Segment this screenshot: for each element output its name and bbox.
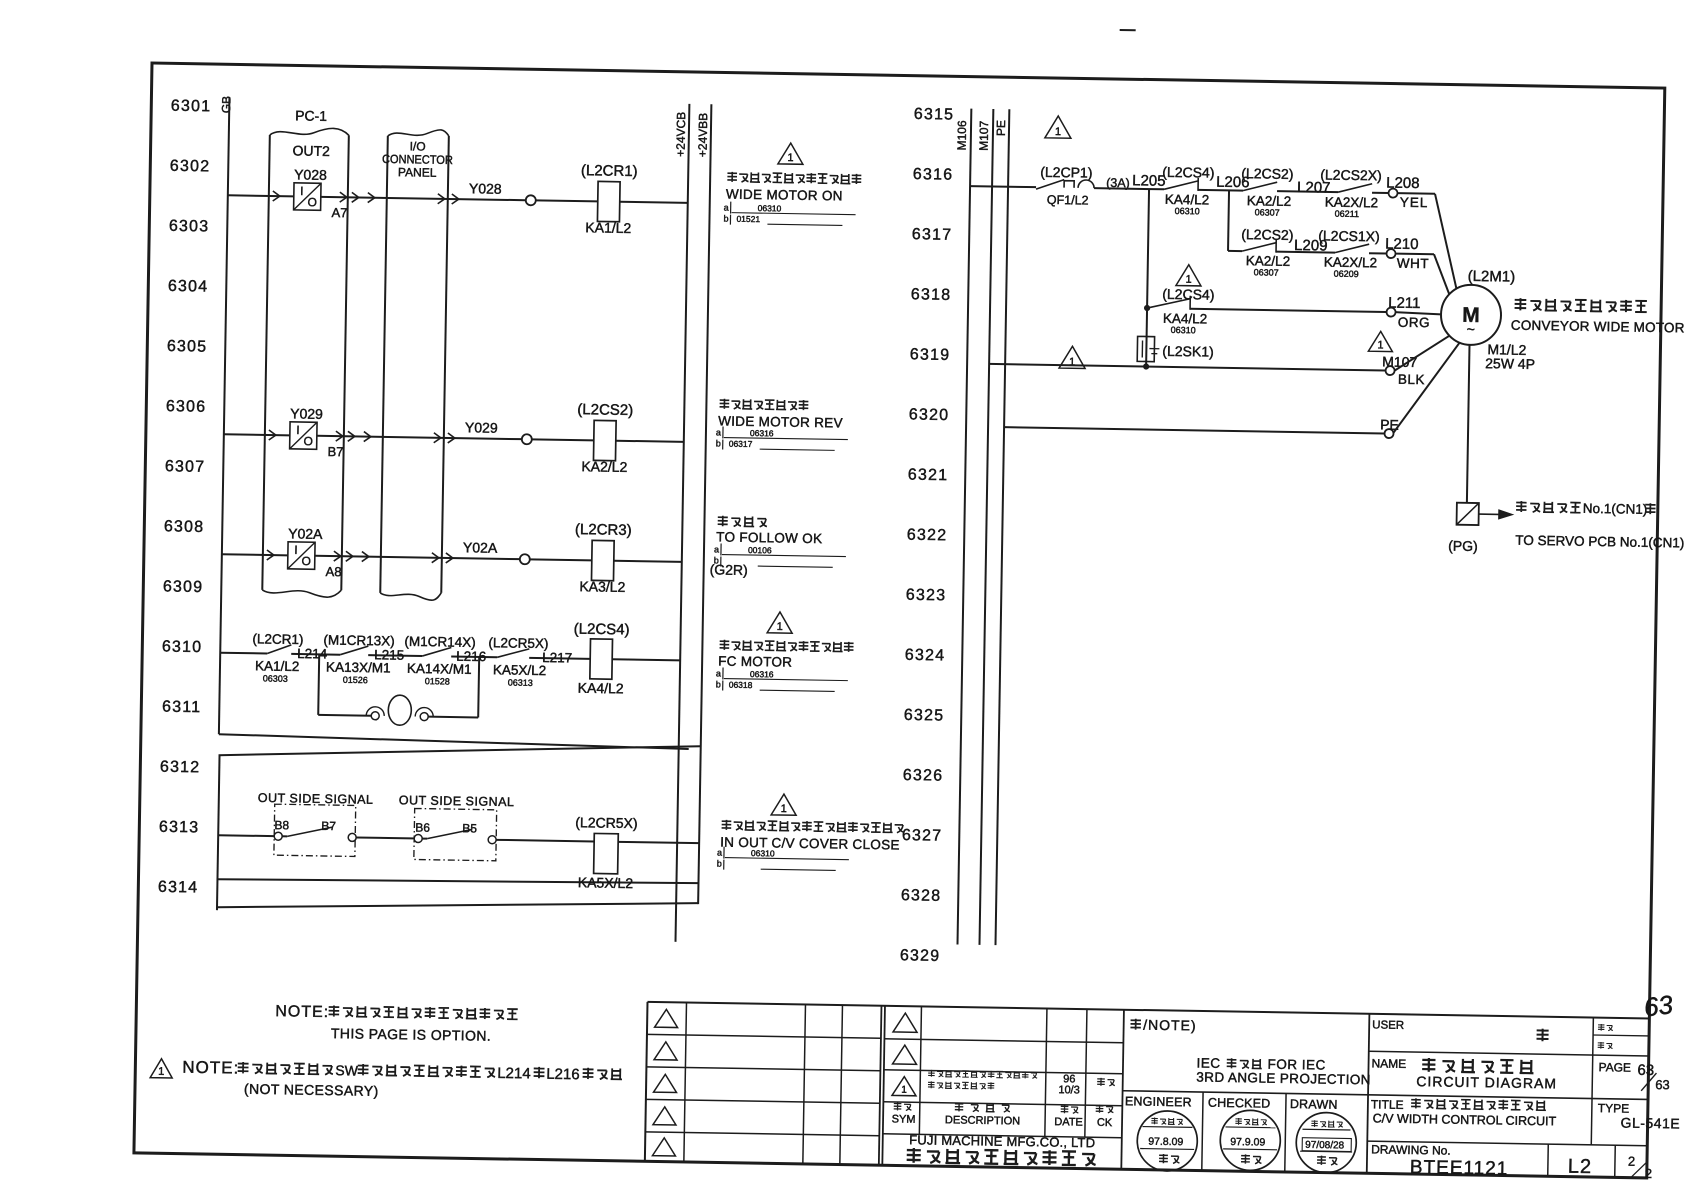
svg-text:(L2M1): (L2M1) [1468,268,1516,286]
svg-text:TO SERVO PCB No.1(CN1): TO SERVO PCB No.1(CN1) [1515,533,1684,551]
svg-text:Y029: Y029 [290,405,323,422]
wire rung Y029 from GB rail [224,434,290,435]
svg-text:1: 1 [1069,356,1075,368]
note triangle 1 (rung 6310) [767,612,792,633]
svg-text:SYM: SYM [892,1113,916,1125]
svg-text:CONVEYOR WIDE MOTOR: CONVEYOR WIDE MOTOR [1511,318,1685,336]
svg-text:01526: 01526 [343,675,368,685]
svg-text:L205: L205 [1132,172,1166,190]
wire node L214 [291,653,340,656]
svg-text:(L2CS4): (L2CS4) [1162,286,1214,303]
svg-text:TYPE: TYPE [1598,1101,1630,1116]
comment FC MOTOR (Japanese) [720,640,730,650]
wire coil KA4/L2 to +24VCB [612,659,680,660]
svg-text:+24VCB: +24VCB [674,112,689,157]
relay coil L2CS2 KA2/L2 [593,420,616,460]
svg-text:THIS PAGE IS OPTION.: THIS PAGE IS OPTION. [331,1025,491,1044]
terminal circle Y029 [522,434,532,444]
revision triangle left 4 [653,1107,676,1125]
PLC output Y029 [290,422,317,449]
enclosure bottom edge lower box [217,875,698,887]
power rail +24VCB [676,104,690,942]
svg-text:(L2CS1X): (L2CS1X) [1318,227,1380,244]
svg-text:b: b [717,858,722,868]
relay coil L2CR5X KA5X/L2 [594,833,619,873]
header DESCRIPTION (Japanese) [955,1103,964,1112]
svg-text:10/3: 10/3 [1058,1084,1080,1096]
svg-text:a: a [717,847,722,857]
component box PC-1 (torn outline) [270,127,349,136]
svg-text:O: O [307,195,317,209]
wire branch drop to 6317 [1228,190,1229,250]
svg-text:A8: A8 [325,564,341,579]
svg-text:(L2CR1): (L2CR1) [581,162,638,180]
svg-text:B8: B8 [274,818,289,832]
svg-text:WIDE MOTOR ON: WIDE MOTOR ON [726,187,843,204]
svg-text:97.8.09: 97.8.09 [1148,1136,1183,1149]
note triangle 1 (M107) [1368,331,1392,351]
svg-text:6326: 6326 [903,767,944,785]
comment WIDE MOTOR REV (Japanese) [720,399,730,409]
svg-text:6309: 6309 [163,578,204,596]
engineer cells [1202,1092,1203,1170]
svg-text:I: I [294,543,298,557]
svg-text:(L2CS4): (L2CS4) [1162,164,1214,181]
wire rung Y028 through connector panel [321,197,526,200]
svg-text:06303: 06303 [263,673,288,683]
enclosure top edge lower box [219,738,701,763]
surge killer L2SK1 [1137,336,1154,361]
revision triangle left 5 [652,1138,675,1156]
svg-text:FUJI MACHINE MFG.CO., LTD: FUJI MACHINE MFG.CO., LTD [909,1132,1095,1150]
comment TO FOLLOW OK (Japanese) [718,516,728,527]
contact L2CS4 KA4/L2 (6318) [1147,298,1190,309]
svg-text:IN OUT C/V COVER CLOSE: IN OUT C/V COVER CLOSE [720,835,900,853]
svg-text:6320: 6320 [909,406,950,424]
svg-text:TO FOLLOW OK: TO FOLLOW OK [716,529,822,546]
svg-text:NOTE:: NOTE: [275,1003,329,1021]
svg-text:YEL: YEL [1400,195,1429,210]
wire L206 [1198,189,1243,192]
svg-text:QF1/L2: QF1/L2 [1047,193,1089,208]
svg-text:6304: 6304 [168,278,209,296]
note triangle 1 (L2CS4 6318) [1176,265,1201,286]
wire rung Y02A from GB rail [222,554,288,555]
svg-text:(L2CS2): (L2CS2) [1241,226,1293,243]
svg-text:TITLE: TITLE [1371,1097,1404,1112]
svg-text:a: a [716,668,721,678]
note triangle 1 (L2CP1) [1045,116,1071,138]
svg-text:b: b [716,438,721,448]
svg-text:06211: 06211 [1335,209,1360,219]
svg-text:01521: 01521 [736,214,760,224]
relay coil L2CS4 KA4/L2 [590,639,613,679]
svg-text:DRAWING No.: DRAWING No. [1371,1142,1451,1157]
revision triangle right 3 with 1 [892,1076,916,1095]
title box rows [1369,1051,1649,1056]
FUJI company name (Japanese) [907,1148,921,1163]
svg-text:L2: L2 [1568,1156,1593,1178]
arrow to servo PCB [1479,513,1499,515]
svg-text:L217: L217 [542,650,572,665]
svg-text:KA5X/L2: KA5X/L2 [493,662,547,678]
svg-text:FC MOTOR: FC MOTOR [718,653,792,669]
svg-text:ENGINEER: ENGINEER [1125,1094,1192,1109]
svg-text:6303: 6303 [169,218,210,236]
wire BLK to motor [1395,335,1450,372]
svg-text:6318: 6318 [911,286,952,304]
svg-text:KA4/L2: KA4/L2 [1163,311,1208,327]
title circuit diagram (Japanese) [1422,1058,1435,1072]
wire YEL to motor [1398,192,1435,195]
wire Y029 to coil [532,439,594,440]
connector plug symbol 6311 [371,712,379,720]
svg-text:M106: M106 [955,120,970,151]
svg-text:KA2/L2: KA2/L2 [1246,253,1291,269]
terminal circle Y028 [526,195,536,205]
relay coil L2CR1 KA1/L2 [597,181,620,221]
contact L2CS1X KA2X/L2 (6317) [1335,244,1369,254]
svg-text:ORG: ORG [1398,315,1431,331]
PLC output Y028 [294,183,321,210]
power rail +24VBB [698,104,711,904]
wire motor to PG [1467,345,1470,503]
svg-text:L214: L214 [297,646,328,662]
svg-text:+24VBB: +24VBB [696,113,711,158]
label dono (Japanese) [1536,1029,1548,1042]
note box [1367,1014,1370,1173]
svg-text:6310: 6310 [162,638,203,656]
svg-text:6327: 6327 [902,827,943,845]
svg-text:06310: 06310 [1171,325,1196,335]
title block top edge [648,1002,1650,1019]
wire L211 [1190,309,1386,312]
terminal PE [1384,429,1393,438]
svg-text:O: O [303,434,313,448]
wire rung Y028 from GB rail [228,195,294,196]
motor L2M1 [1441,284,1502,345]
wire 6319 M107 row [989,364,1385,371]
svg-text:06317: 06317 [729,439,753,449]
wire between switches [356,837,418,838]
revision triangle left 1 [655,1009,678,1027]
svg-text:6307: 6307 [165,458,206,476]
svg-text:(L2CR5X): (L2CR5X) [488,635,548,651]
svg-text:BTEE1121: BTEE1121 [1410,1157,1509,1180]
svg-text:06307: 06307 [1254,267,1279,277]
svg-text:6323: 6323 [906,587,947,605]
comment WIDE MOTOR ON (Japanese) [727,172,737,182]
svg-text:06310: 06310 [1175,206,1200,216]
svg-text:I: I [296,423,300,437]
svg-text:O: O [301,554,311,568]
svg-text:(M1CR13X): (M1CR13X) [323,632,395,648]
svg-text:06316: 06316 [750,669,774,679]
svg-text:06209: 06209 [1334,269,1359,279]
svg-text:6322: 6322 [907,527,948,545]
stamp ENGINEER [1137,1110,1198,1171]
revision table left [645,1002,648,1161]
svg-text:06307: 06307 [1255,207,1280,217]
svg-text:KA3/L2: KA3/L2 [579,578,625,595]
svg-text:6301: 6301 [171,98,212,116]
svg-text:B6: B6 [415,820,430,834]
wire Y028 to coil [536,200,598,201]
terminal circle Y02A [520,554,530,564]
circuit breaker L2CP1 QF1/L2 [1036,179,1064,189]
enclosure bottom edge upper box [219,734,689,749]
svg-text:01528: 01528 [425,676,450,686]
contact M1CR14X KA14X/M1 [422,647,451,656]
wire Y02A to coil [530,559,592,560]
revision CK (Japanese) [1097,1078,1105,1086]
svg-text:GB: GB [219,96,233,114]
svg-text:Y02A: Y02A [288,525,323,542]
encoder PG [1457,503,1479,525]
svg-text:6317: 6317 [912,226,953,244]
svg-text:/NOTE): /NOTE) [1143,1017,1197,1034]
svg-text:I/O: I/O [410,139,426,153]
svg-text:L216: L216 [546,1066,580,1084]
revision triangle right 2 [893,1045,917,1064]
power rail M106 [957,109,971,945]
svg-text:A7: A7 [331,205,347,220]
svg-text:WHT: WHT [1397,256,1429,272]
contact L2CS2 KA2/L2 (6317) [1228,250,1242,252]
wire L207 [1277,191,1338,192]
dashed box switch 2 [414,808,497,860]
svg-text:KA2/L2: KA2/L2 [581,458,627,475]
wire coil KA1/L2 to +24VCB [620,202,688,203]
contact L2CS2 KA2/L2 (6316) [1243,182,1277,192]
handwritten page number 63 [1642,989,1675,1022]
wire node L216 [451,656,497,659]
svg-text:L215: L215 [374,647,404,662]
svg-text:1: 1 [777,621,783,633]
svg-text:USER: USER [1372,1019,1404,1032]
svg-text:6315: 6315 [914,106,955,124]
wire node L217 [529,658,590,659]
terminal L211 ORG [1386,308,1395,317]
enclosure left edge lower box [217,755,220,910]
label NOTE (Japanese) [1130,1019,1141,1030]
label conveyor wide motor (Japanese) [1515,298,1527,310]
svg-text:63: 63 [1637,1062,1654,1079]
wire rung Y02A through connector panel [315,556,520,559]
svg-text:KA4/L2: KA4/L2 [1165,192,1210,208]
power rail PE [995,109,1009,945]
svg-text:6319: 6319 [910,346,951,364]
svg-text:KA5X/L2: KA5X/L2 [578,874,634,891]
svg-text:Y029: Y029 [465,419,498,436]
wire GB rail [219,97,230,734]
svg-text:b: b [723,213,728,223]
svg-text:(L2CS4): (L2CS4) [574,621,630,639]
component box I/O CONNECTOR PANEL (torn outline) [388,129,449,137]
wire rung 6313 [218,834,274,837]
svg-text:6305: 6305 [167,338,208,356]
contact L2CR5X KA5X/L2 [497,648,529,658]
svg-text:(M1CR14X): (M1CR14X) [404,634,476,650]
svg-text:(NOT NECESSARY): (NOT NECESSARY) [244,1081,379,1099]
wire L210 [1369,252,1386,254]
svg-text:L214: L214 [497,1065,531,1083]
svg-text:(L2SK1): (L2SK1) [1162,343,1214,360]
wire L208 [1372,192,1388,194]
wire 6320 PE row [1004,427,1384,433]
wire PE to motor [1394,342,1460,434]
svg-text:(PG): (PG) [1448,538,1478,554]
svg-text:OUT2: OUT2 [292,142,330,159]
svg-text:KA4/L2: KA4/L2 [578,680,624,697]
enclosure second bottom line [217,895,698,915]
svg-text:1: 1 [1377,339,1383,351]
wire branch 6311 right drop [428,716,478,719]
header DATE (Japanese) [1061,1105,1069,1113]
svg-text:06310: 06310 [751,848,775,858]
svg-text:DESCRIPTION: DESCRIPTION [945,1114,1020,1127]
svg-text:(L2CS2X): (L2CS2X) [1320,166,1382,183]
svg-text:L216: L216 [456,649,486,664]
contact L2CS4 KA4/L2 (6316) [1164,180,1198,190]
svg-text:2: 2 [1628,1154,1635,1169]
svg-text:B5: B5 [462,821,477,835]
svg-text:CHECKED: CHECKED [1208,1096,1271,1111]
header SYM (Japanese) [894,1102,902,1110]
svg-text:(L2CR1): (L2CR1) [252,631,303,647]
wire coil KA5X/L2 to +24VBB [618,842,699,843]
label servo PCB (Japanese) [1516,501,1527,512]
svg-text:KA1/L2: KA1/L2 [585,219,631,236]
svg-text:C/V WIDTH CONTROL CIRCUIT: C/V WIDTH CONTROL CIRCUIT [1373,1111,1557,1128]
svg-text:97/08/28: 97/08/28 [1305,1140,1345,1152]
svg-text:97.9.09: 97.9.09 [1230,1136,1265,1149]
svg-text:6325: 6325 [904,707,945,725]
revision entry text (Japanese) [928,1070,935,1077]
revision triangle right 1 [893,1013,917,1032]
revision table right [882,1006,885,1165]
svg-text:6321: 6321 [908,466,949,484]
svg-text:6306: 6306 [166,398,207,416]
svg-text:25W 4P: 25W 4P [1485,355,1535,372]
svg-text:00106: 00106 [748,545,772,555]
wire L209 [1276,251,1335,254]
svg-text:PC-1: PC-1 [295,107,327,124]
svg-text:B7: B7 [321,819,336,833]
contact M1CR13X KA13X/M1 [340,646,368,655]
svg-text:a: a [716,427,721,437]
svg-text:1: 1 [781,803,787,815]
svg-text:2: 2 [1645,1166,1652,1181]
svg-text:B7: B7 [327,444,343,459]
switch B8-B7 [274,832,282,840]
wire WHT to motor [1396,253,1434,256]
comment IN OUT C/V COVER CLOSE (Japanese) [722,820,732,830]
svg-text:CK: CK [1097,1117,1113,1129]
svg-text:6311: 6311 [162,699,201,717]
svg-text:06313: 06313 [508,677,533,687]
note triangle 1 (rung Y028) [778,143,803,164]
svg-text:KA2/L2: KA2/L2 [1247,193,1292,209]
svg-text:NAME: NAME [1371,1056,1406,1071]
terminal L208 YEL [1388,189,1397,198]
svg-text:6324: 6324 [905,647,946,665]
svg-text:6328: 6328 [901,887,942,905]
relay coil L2CR3 KA3/L2 [591,540,614,580]
stamp DRAWN [1296,1112,1357,1173]
svg-text:06316: 06316 [750,428,774,438]
svg-text:63: 63 [1655,1077,1670,1092]
note triangle 1 (rung 6313) [771,794,796,815]
PLC output Y02A [288,542,315,569]
wire branch KA4 vertical [1146,189,1149,366]
svg-text:SW: SW [335,1062,359,1078]
title text (Japanese) [1411,1098,1421,1108]
note triangle 1 (bottom note) [150,1059,172,1078]
contact L2CR1 KA1/L2 [267,644,291,653]
wire to coil KA5X/L2 [496,840,594,842]
terminal L210 WHT [1386,249,1395,258]
svg-text:PAGE: PAGE [1598,1060,1631,1075]
svg-text:PE: PE [994,120,1008,136]
svg-text:CIRCUIT DIAGRAM: CIRCUIT DIAGRAM [1416,1073,1557,1091]
stamp CHECKED [1220,1110,1281,1171]
svg-text:BLK: BLK [1398,372,1425,387]
svg-text:a: a [714,544,719,554]
svg-text:OUT SIDE SIGNAL: OUT SIDE SIGNAL [399,793,515,809]
svg-text:Y02A: Y02A [463,539,498,556]
svg-text:1: 1 [901,1085,907,1096]
svg-text:b: b [716,679,721,689]
labels bunban zenban (Japanese) [1598,1024,1605,1031]
svg-text:6302: 6302 [170,158,211,176]
page mark [1120,29,1136,31]
svg-text:6313: 6313 [159,819,200,837]
wire rung 6310 start [220,652,267,655]
svg-text:1: 1 [158,1066,164,1078]
svg-text:DRAWN: DRAWN [1290,1097,1338,1112]
svg-text:(L2CP1): (L2CP1) [1040,164,1092,181]
svg-text:M107: M107 [977,120,992,151]
svg-text:6314: 6314 [158,879,199,897]
svg-text:6308: 6308 [164,518,205,536]
wire coil KA3/L2 to +24VCB [614,561,682,562]
wire branch 6311 left drop [318,654,319,714]
svg-text:Y028: Y028 [469,180,502,197]
svg-text:(L2CS2): (L2CS2) [1241,165,1293,182]
wire 6316 from M106 [970,186,1036,187]
revision triangle left 3 [654,1074,677,1092]
svg-text:~: ~ [1467,321,1475,337]
svg-text:1: 1 [1185,274,1191,286]
switch B6-B5 [414,834,422,842]
svg-text:PANEL: PANEL [398,165,437,180]
svg-text:WIDE MOTOR REV: WIDE MOTOR REV [718,413,843,430]
svg-text:No.1(CN1): No.1(CN1) [1583,501,1648,517]
svg-text:3RD ANGLE PROJECTION: 3RD ANGLE PROJECTION [1196,1069,1371,1087]
wire L205 [1094,188,1164,189]
svg-text:1: 1 [787,152,793,164]
svg-text:NOTE:: NOTE: [182,1058,239,1078]
svg-text:I: I [300,184,304,198]
power rail M107 [979,109,993,945]
svg-text:(L2CR3): (L2CR3) [575,521,632,539]
svg-text:KA1/L2: KA1/L2 [255,658,300,674]
svg-text:Y028: Y028 [294,166,327,183]
svg-text:06318: 06318 [729,680,753,690]
svg-text:a: a [724,202,729,212]
wire coil KA2/L2 to +24VCB [616,441,684,442]
